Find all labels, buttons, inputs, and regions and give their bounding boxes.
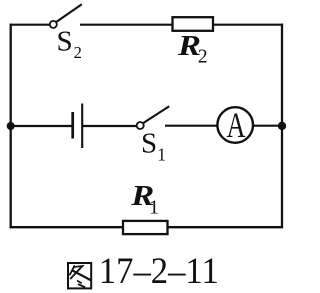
resistor R2 box xyxy=(173,17,214,31)
svg-text:S: S xyxy=(57,26,73,58)
svg-text:S: S xyxy=(141,128,157,160)
wire: top, left segment to switch S2 xyxy=(10,24,51,26)
svg-text:2: 2 xyxy=(198,47,208,68)
wire: top, segment from S2 to right corner xyxy=(80,24,283,26)
svg-text:1: 1 xyxy=(149,196,159,218)
node (right junction dot) xyxy=(278,122,286,130)
svg-text:17–2–11: 17–2–11 xyxy=(99,251,219,292)
wire: middle, left node to battery xyxy=(11,125,72,127)
wire: ammeter to right node xyxy=(252,125,282,127)
battery cell: long plate xyxy=(81,104,83,149)
wire: right vertical xyxy=(281,24,283,229)
switch S2 lever xyxy=(56,4,82,22)
caption: character 图 (drawn) xyxy=(68,263,91,288)
wire: S1 to ammeter xyxy=(165,125,218,127)
resistor R1 box xyxy=(123,221,168,234)
svg-text:1: 1 xyxy=(157,144,166,164)
switch S2 pivot circle xyxy=(50,21,57,28)
ammeter A (meter body) xyxy=(217,107,253,143)
node (left junction dot) xyxy=(7,122,15,130)
wire: left vertical xyxy=(10,24,12,229)
switch S1 lever xyxy=(143,106,169,123)
wire: bottom xyxy=(10,226,283,228)
battery cell: short plate xyxy=(71,112,74,139)
svg-text:2: 2 xyxy=(74,43,82,62)
svg-text:A: A xyxy=(227,105,246,145)
wire: battery to switch S1 xyxy=(83,125,137,127)
switch S1 pivot circle xyxy=(137,122,144,129)
